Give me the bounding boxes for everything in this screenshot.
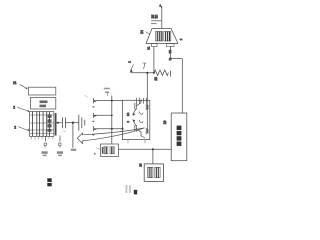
wire from right tab down: [169, 47, 171, 59]
leader to U1: [146, 32, 150, 35]
transistor Q2: [132, 119, 148, 138]
comb cover rect: [29, 87, 56, 95]
resistor R1: [154, 70, 168, 75]
wire up from U1: [161, 6, 163, 29]
svg-text:20: 20: [155, 15, 159, 19]
svg-text:..: ..: [93, 119, 95, 123]
comb label box: [30, 97, 55, 109]
svg-text:21: 21: [13, 81, 17, 85]
svg-text:..: ..: [92, 153, 96, 155]
internal drain wire: [146, 73, 148, 133]
svg-text:2;: 2;: [168, 58, 172, 61]
wire bus vertical: [111, 96, 113, 145]
terminal bar 1: [93, 98, 95, 103]
wire: [66, 122, 79, 124]
matching box: [101, 144, 119, 157]
tick above t1: [85, 95, 88, 97]
terminal bar 3: [93, 126, 95, 131]
port glyph 1: [44, 143, 47, 146]
stub down from junction: [72, 123, 74, 148]
wire right: [170, 58, 182, 60]
svg-text:2: 2: [14, 126, 16, 130]
ground bars: [78, 115, 80, 131]
svg-text:22: 22: [168, 50, 172, 54]
transducer U1 (trapezoid housing): [146, 29, 178, 44]
stub under box 2: [144, 140, 146, 144]
port stub 1: [45, 136, 47, 141]
junction dot: [72, 122, 74, 124]
arrowhead node: [159, 3, 162, 6]
oscillator box: [122, 100, 149, 139]
junction dots: [111, 100, 113, 102]
pointer tick T: [143, 62, 147, 64]
transistor Q1: [132, 100, 148, 116]
label under stub: [71, 149, 76, 151]
svg-text:25: 25: [139, 163, 143, 167]
svg-text:2: 2: [13, 106, 15, 110]
wire from left tab down: [153, 47, 155, 73]
driver box: [144, 164, 163, 182]
wire matching box to control box: [119, 148, 172, 150]
svg-text:21: 21: [146, 46, 150, 50]
svg-text:24: 24: [126, 112, 130, 116]
comb output wire: [57, 122, 62, 124]
svg-text:24: 24: [140, 30, 144, 34]
electrode bar: [55, 113, 57, 136]
svg-text:23: 23: [163, 120, 167, 124]
label left of matching box: [96, 148, 100, 150]
wire low rail: [94, 128, 122, 130]
wire mid: [94, 114, 112, 116]
doc number: [126, 185, 131, 193]
input arrow at wire end: [130, 65, 133, 71]
caps on box top edge: [135, 98, 137, 104]
comb IDT block: [30, 112, 54, 140]
element right in U1: [164, 32, 171, 42]
capacitor C1: [61, 117, 63, 128]
tick under cap: [63, 131, 66, 132]
wire to resistor: [131, 72, 154, 74]
port stub 2: [59, 136, 61, 142]
stub under box 1: [127, 140, 129, 144]
FIG label: [47, 178, 51, 186]
svg-text:23: 23: [154, 77, 158, 81]
control box text: [177, 126, 182, 146]
bus top tick: [105, 91, 109, 93]
port glyph 2: [58, 143, 61, 146]
svg-text:..: ..: [93, 104, 95, 108]
block arrow: [77, 128, 144, 144]
junction dot: [152, 148, 154, 150]
wire top rail: [94, 100, 122, 102]
tick 1: [151, 20, 161, 22]
element left in U1: [156, 32, 163, 42]
wire down to control box: [181, 59, 183, 114]
terminal tab right of U1: [167, 44, 175, 47]
terminal bar 2: [93, 113, 95, 118]
terminal tick right of R1: [170, 71, 172, 77]
junction dot: [153, 72, 155, 74]
text in label box: [40, 101, 48, 104]
tick 2: [151, 23, 157, 25]
control circuit box: [171, 113, 187, 161]
terminal tab left of U1: [152, 44, 158, 47]
wire down to driver box: [152, 149, 154, 164]
